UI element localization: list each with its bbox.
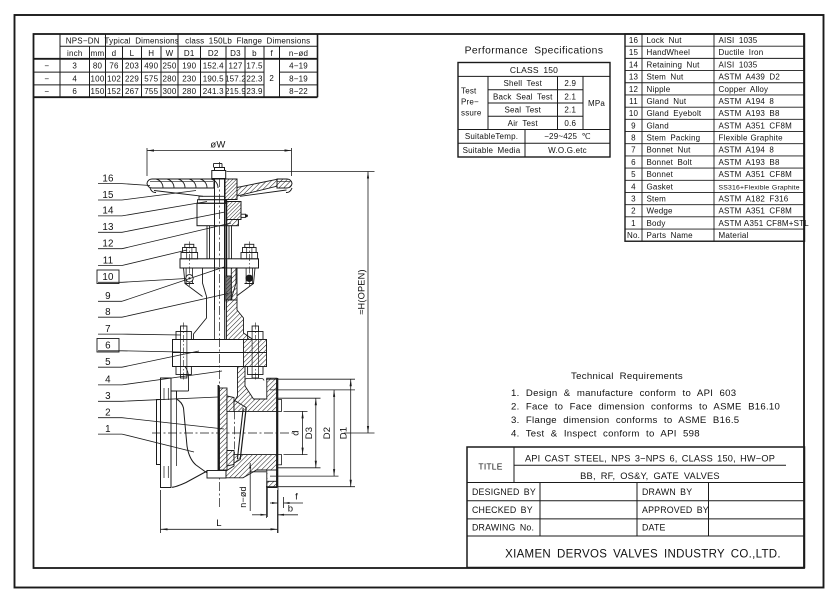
svg-text:−: − [44, 61, 49, 70]
svg-text:SuitableTemp.: SuitableTemp. [465, 132, 518, 141]
svg-text:190: 190 [182, 61, 196, 70]
svg-text:11: 11 [629, 97, 638, 106]
svg-text:16: 16 [102, 173, 114, 184]
svg-text:ASTM A351 CF8M: ASTM A351 CF8M [719, 170, 793, 179]
svg-text:W.O.G.etc: W.O.G.etc [548, 146, 587, 155]
svg-text:Technical Requirements: Technical Requirements [571, 371, 683, 382]
svg-text:Back Seal Test: Back Seal Test [493, 92, 553, 101]
svg-text:0.6: 0.6 [564, 119, 576, 128]
svg-text:H: H [148, 49, 154, 58]
svg-text:Seal Test: Seal Test [504, 106, 541, 115]
svg-text:b: b [252, 49, 257, 58]
svg-text:190.5: 190.5 [203, 74, 224, 83]
svg-text:Ductile Iron: Ductile Iron [719, 48, 764, 57]
svg-text:4: 4 [105, 375, 111, 386]
svg-text:Bonnet Bolt: Bonnet Bolt [647, 158, 693, 167]
svg-text:4: 4 [72, 74, 77, 83]
svg-text:ASTM A182 F316: ASTM A182 F316 [719, 194, 789, 203]
svg-text:Performance Specifications: Performance Specifications [465, 46, 604, 57]
svg-text:b: b [288, 504, 293, 515]
svg-text:2.1: 2.1 [564, 106, 576, 115]
svg-text:DRAWING No.: DRAWING No. [472, 523, 534, 533]
svg-text:ASTM A351 CF8M+STL: ASTM A351 CF8M+STL [719, 219, 810, 228]
svg-text:12: 12 [102, 239, 113, 250]
svg-text:TITLE: TITLE [478, 462, 502, 472]
svg-text:14: 14 [629, 60, 639, 69]
svg-text:XIAMEN DERVOS VALVES INDUSTRY: XIAMEN DERVOS VALVES INDUSTRY CO.,LTD. [505, 549, 781, 561]
svg-text:D1: D1 [184, 49, 195, 58]
svg-text:2.9: 2.9 [564, 79, 576, 88]
svg-text:9: 9 [105, 291, 111, 302]
svg-text:No.: No. [627, 231, 640, 240]
svg-text:4: 4 [631, 182, 636, 191]
svg-text:8−19: 8−19 [289, 74, 308, 83]
svg-text:152.4: 152.4 [203, 61, 224, 70]
svg-text:Stem Nut: Stem Nut [647, 73, 685, 82]
svg-text:CLASS 150: CLASS 150 [510, 65, 558, 75]
svg-text:80: 80 [93, 61, 103, 70]
svg-text:300: 300 [163, 87, 177, 96]
svg-text:15: 15 [629, 48, 639, 57]
svg-text:API CAST STEEL, NPS 3−NPS 6, C: API CAST STEEL, NPS 3−NPS 6, CLASS 150, … [525, 453, 775, 463]
svg-text:d: d [291, 430, 302, 435]
svg-text:215.9: 215.9 [225, 87, 246, 96]
svg-text:4−19: 4−19 [289, 61, 308, 70]
svg-text:2. Face to Face dimension con: 2. Face to Face dimension conforms to AS… [511, 401, 780, 412]
svg-text:Typical Dimensions: Typical Dimensions [104, 37, 179, 46]
svg-text:D2: D2 [322, 427, 333, 440]
svg-text:D3: D3 [304, 427, 315, 440]
svg-text:DRAWN BY: DRAWN BY [642, 487, 692, 497]
svg-text:2: 2 [631, 207, 636, 216]
svg-text:L: L [216, 518, 221, 529]
svg-text:Gland Eyebolt: Gland Eyebolt [647, 109, 702, 118]
svg-text:ASTM A439 D2: ASTM A439 D2 [719, 73, 781, 82]
svg-text:22.3: 22.3 [246, 74, 263, 83]
svg-text:280: 280 [182, 87, 196, 96]
svg-text:5: 5 [631, 170, 636, 179]
svg-text:≈H(OPEN): ≈H(OPEN) [357, 269, 367, 314]
svg-text:inch: inch [67, 49, 82, 58]
svg-text:203: 203 [125, 61, 139, 70]
svg-text:8: 8 [105, 307, 111, 318]
svg-text:Stem: Stem [647, 194, 667, 203]
svg-text:157.2: 157.2 [225, 74, 246, 83]
svg-text:Stem Packing: Stem Packing [647, 134, 701, 143]
svg-text:DESIGNED BY: DESIGNED BY [472, 487, 536, 497]
svg-text:17.5: 17.5 [246, 61, 263, 70]
svg-text:23.9: 23.9 [246, 87, 263, 96]
svg-text:ASTM A194 8: ASTM A194 8 [719, 146, 775, 155]
svg-text:AISI 1035: AISI 1035 [719, 36, 758, 45]
svg-text:Bonnet Nut: Bonnet Nut [647, 146, 692, 155]
svg-text:Flexible Graphite: Flexible Graphite [719, 134, 784, 143]
svg-text:n−ød: n−ød [238, 486, 248, 508]
svg-text:10: 10 [629, 109, 639, 118]
svg-text:Parts Name: Parts Name [647, 231, 694, 240]
svg-text:Air Test: Air Test [508, 119, 539, 128]
svg-text:MPa: MPa [588, 99, 605, 108]
svg-text:BB, RF, OS&Y, GATE VALVES: BB, RF, OS&Y, GATE VALVES [580, 471, 720, 481]
svg-text:1. Design & manufacture confo: 1. Design & manufacture conform to API 6… [511, 388, 736, 399]
svg-text:575: 575 [144, 74, 158, 83]
svg-text:CHECKED BY: CHECKED BY [472, 505, 533, 515]
svg-text:Gland: Gland [647, 121, 669, 130]
svg-text:ssure: ssure [461, 109, 482, 118]
svg-text:1: 1 [631, 219, 636, 228]
svg-text:Nipple: Nipple [647, 85, 671, 94]
svg-text:−: − [44, 74, 49, 83]
svg-text:Bonnet: Bonnet [647, 170, 674, 179]
svg-text:ASTM A194 8: ASTM A194 8 [719, 97, 775, 106]
svg-text:6: 6 [631, 158, 636, 167]
svg-text:n−ød: n−ød [289, 49, 308, 58]
svg-text:d: d [112, 49, 117, 58]
svg-text:Copper Alloy: Copper Alloy [719, 85, 769, 94]
svg-text:AISI 1035: AISI 1035 [719, 60, 758, 69]
svg-text:ASTM A351 CF8M: ASTM A351 CF8M [719, 207, 793, 216]
svg-text:Shell Test: Shell Test [503, 79, 542, 88]
svg-text:241.3: 241.3 [203, 87, 224, 96]
svg-text:127: 127 [229, 61, 243, 70]
svg-text:Lock Nut: Lock Nut [647, 36, 683, 45]
svg-text:3: 3 [105, 391, 111, 402]
svg-text:Gasket: Gasket [647, 182, 674, 191]
svg-text:6: 6 [105, 341, 111, 352]
svg-text:mm: mm [91, 49, 105, 58]
svg-text:3: 3 [72, 61, 77, 70]
svg-text:2: 2 [105, 408, 111, 419]
svg-text:15: 15 [102, 190, 114, 201]
svg-text:D3: D3 [230, 49, 241, 58]
svg-text:8−22: 8−22 [289, 87, 308, 96]
svg-text:Suitable Media: Suitable Media [463, 146, 521, 155]
svg-text:Test: Test [461, 87, 477, 96]
svg-text:L: L [130, 49, 135, 58]
svg-text:13: 13 [629, 73, 639, 82]
svg-text:7: 7 [631, 146, 636, 155]
svg-text:DATE: DATE [642, 523, 666, 533]
svg-text:APPROVED BY: APPROVED BY [642, 505, 709, 515]
svg-text:102: 102 [107, 74, 121, 83]
svg-text:13: 13 [102, 222, 114, 233]
svg-text:Wedge: Wedge [647, 207, 674, 216]
svg-text:12: 12 [629, 85, 639, 94]
svg-text:Retaining Nut: Retaining Nut [647, 60, 701, 69]
svg-text:Material: Material [719, 231, 749, 240]
svg-text:16: 16 [629, 36, 639, 45]
svg-text:100: 100 [91, 74, 105, 83]
svg-text:Pre−: Pre− [461, 98, 479, 107]
svg-text:280: 280 [163, 74, 177, 83]
svg-text:14: 14 [102, 206, 114, 217]
svg-text:D1: D1 [339, 427, 350, 440]
svg-text:øW: øW [210, 140, 225, 151]
svg-text:6: 6 [72, 87, 77, 96]
svg-text:150: 150 [91, 87, 105, 96]
svg-text:267: 267 [125, 87, 139, 96]
svg-text:5: 5 [105, 357, 111, 368]
svg-text:9: 9 [631, 121, 636, 130]
svg-text:ASTM A351 CF8M: ASTM A351 CF8M [719, 121, 793, 130]
svg-text:3. Flange dimension conforms: 3. Flange dimension conforms to ASME B16… [511, 415, 739, 426]
svg-text:SS316+Flexible Graphite: SS316+Flexible Graphite [719, 184, 800, 191]
svg-text:class 150Lb Flange Dimensions: class 150Lb Flange Dimensions [185, 37, 310, 46]
svg-text:8: 8 [631, 134, 636, 143]
svg-text:1: 1 [105, 424, 111, 435]
svg-text:76: 76 [109, 61, 119, 70]
svg-text:−29~425 ℃: −29~425 ℃ [544, 132, 591, 141]
svg-text:250: 250 [163, 61, 177, 70]
svg-text:10: 10 [102, 272, 114, 283]
svg-text:2: 2 [269, 74, 274, 83]
svg-text:152: 152 [107, 87, 121, 96]
svg-text:755: 755 [144, 87, 158, 96]
svg-text:4. Test & Inspect conform to: 4. Test & Inspect conform to API 598 [511, 428, 700, 439]
svg-text:7: 7 [105, 324, 111, 335]
svg-text:HandWheel: HandWheel [647, 48, 691, 57]
svg-text:230: 230 [182, 74, 196, 83]
svg-text:−: − [44, 87, 49, 96]
svg-text:W: W [166, 49, 174, 58]
svg-text:Body: Body [647, 219, 666, 228]
svg-text:D2: D2 [208, 49, 219, 58]
svg-text:Gland Nut: Gland Nut [647, 97, 687, 106]
svg-text:11: 11 [103, 255, 114, 266]
svg-text:ASTM A193 B8: ASTM A193 B8 [719, 109, 780, 118]
svg-text:490: 490 [144, 61, 158, 70]
svg-text:f: f [295, 492, 298, 503]
svg-text:ASTM A193 B8: ASTM A193 B8 [719, 158, 780, 167]
svg-text:3: 3 [631, 194, 636, 203]
svg-text:NPS−DN: NPS−DN [66, 37, 100, 46]
svg-text:229: 229 [125, 74, 139, 83]
svg-text:2.1: 2.1 [564, 92, 576, 101]
